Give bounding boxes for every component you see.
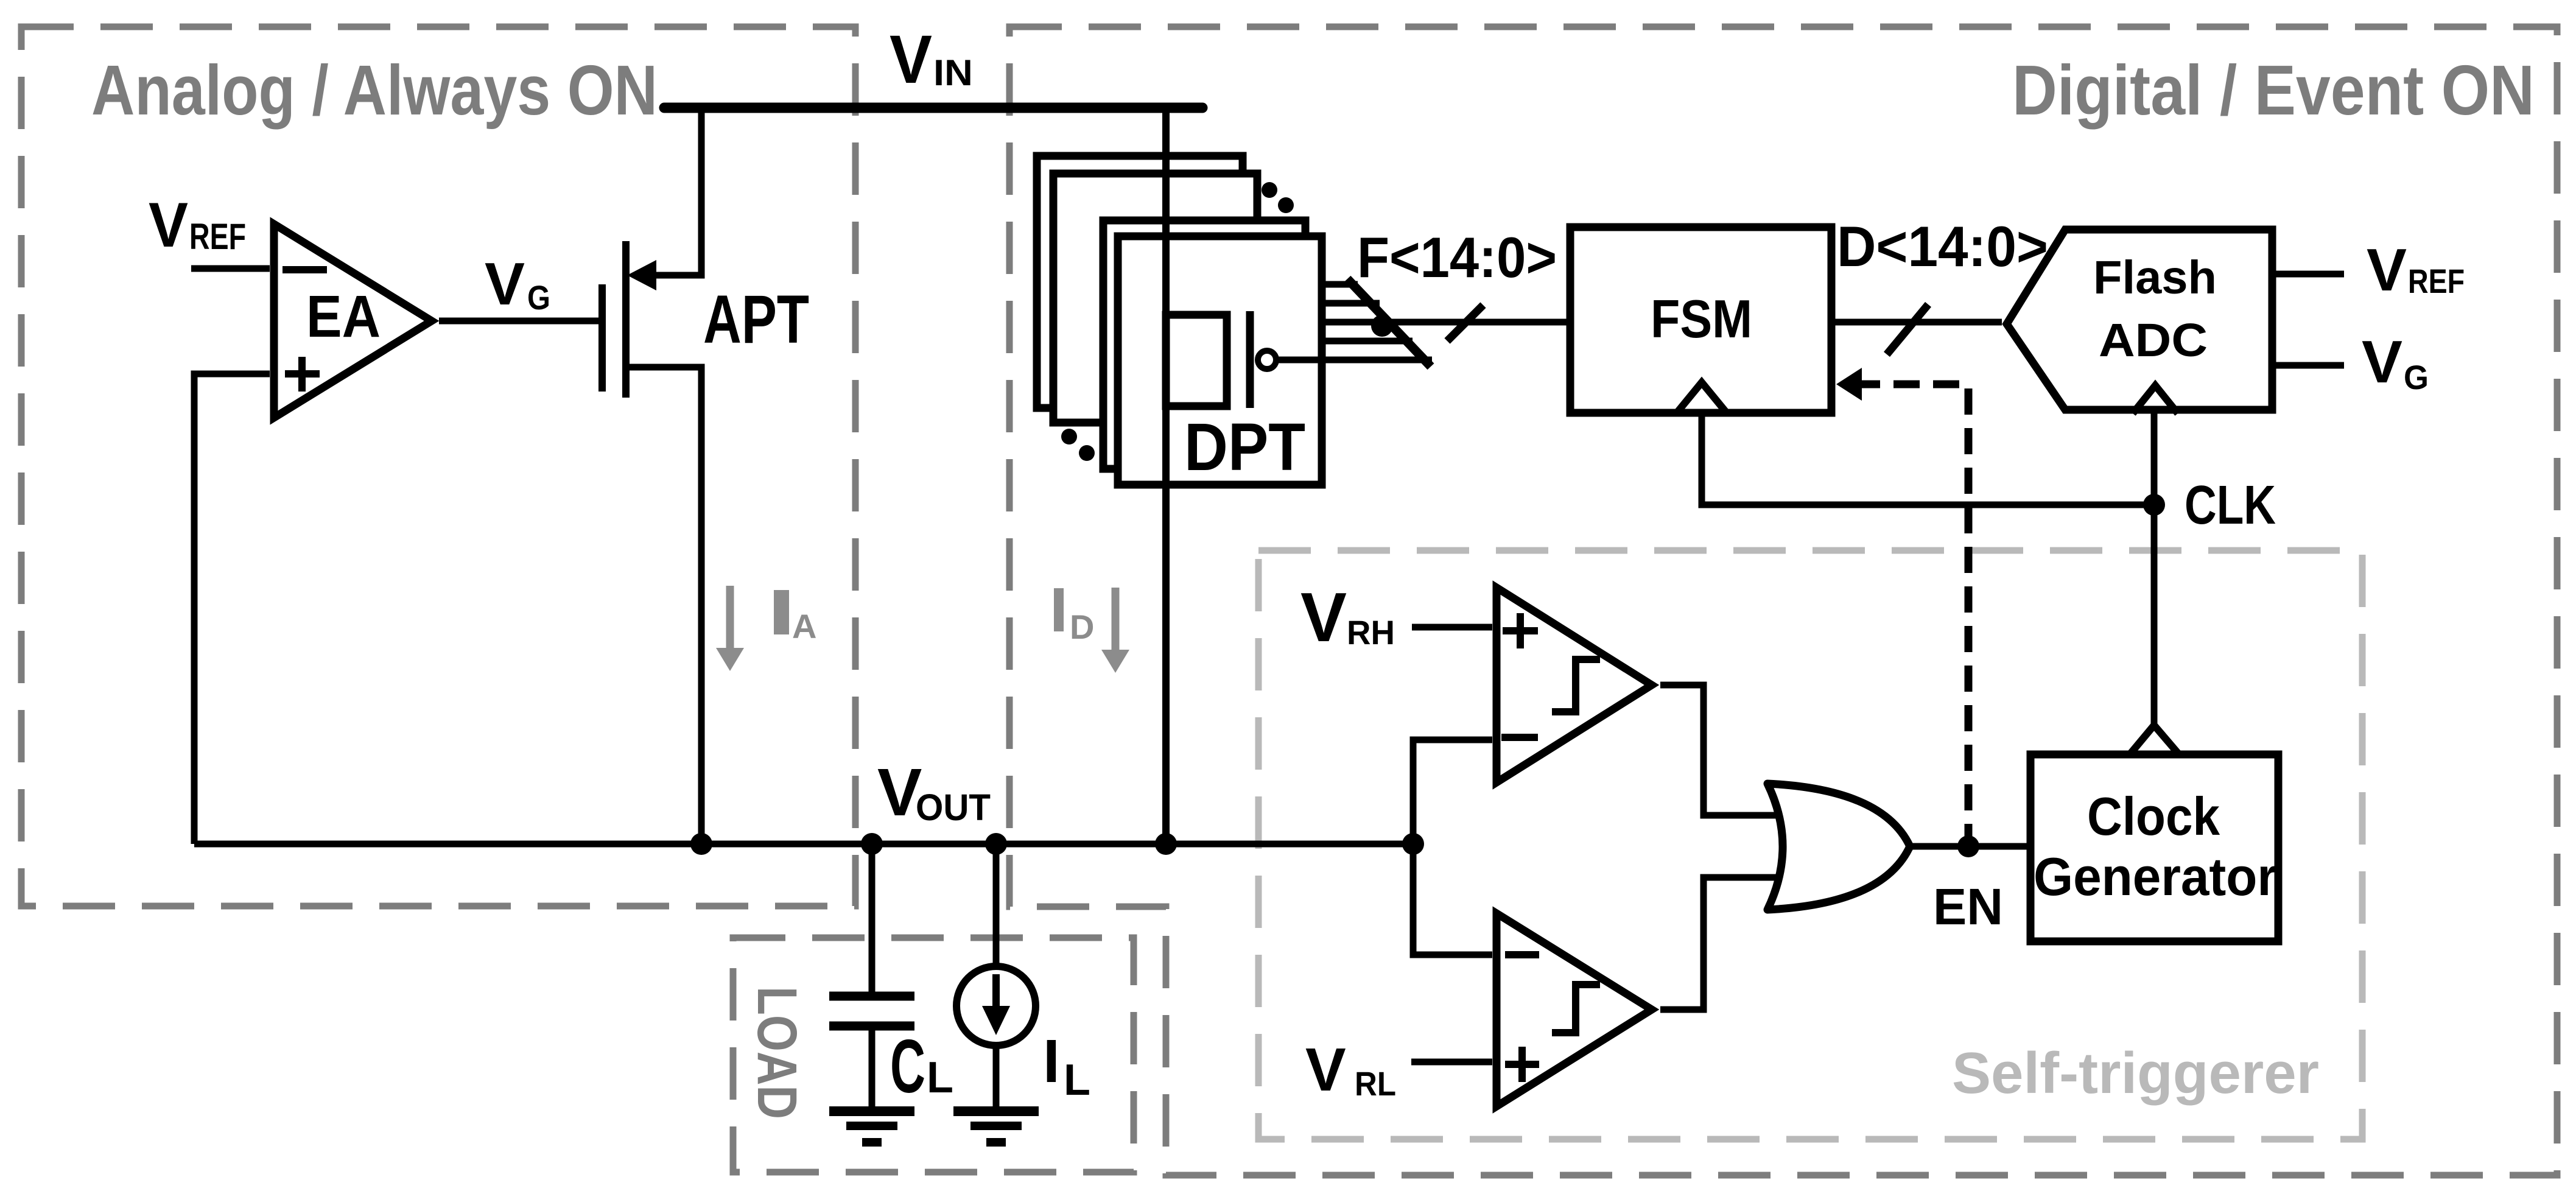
label VREF right — [2367, 236, 2465, 303]
svg-text:V: V — [1305, 1036, 1346, 1104]
svg-text:A: A — [792, 607, 816, 645]
label F<14:0> — [1357, 225, 1557, 289]
svg-text:Self-triggerer: Self-triggerer — [1952, 1041, 2319, 1106]
svg-text:DPT: DPT — [1184, 410, 1305, 485]
svg-text:D<14:0>: D<14:0> — [1837, 214, 2048, 278]
wire APT drain to VOUT — [626, 367, 701, 844]
label APT — [703, 281, 809, 357]
junction VOUT at APT drain — [690, 833, 712, 855]
digital region border — [1009, 27, 2557, 1175]
wire ADC VREF stub — [2276, 271, 2344, 278]
wire D bus FSM to Flash ADC — [1831, 319, 2002, 326]
capacitor CL — [829, 844, 914, 1108]
junction VOUT at CL — [861, 833, 883, 855]
svg-text:L: L — [1064, 1056, 1090, 1105]
wire VIN through DPT to VOUT — [1162, 108, 1170, 844]
block FSM — [1570, 227, 1831, 413]
svg-text:APT: APT — [703, 281, 809, 357]
bus slash D — [1887, 304, 1928, 354]
current arrow IA — [716, 586, 816, 671]
wire VOUT horizontal rail — [194, 841, 1413, 848]
label D<14:0> — [1837, 214, 2048, 278]
digital region label — [2012, 51, 2535, 130]
dashed wire EN to FSM — [1836, 368, 1968, 846]
label DPT — [1184, 410, 1305, 485]
ground below IL — [953, 1111, 1039, 1142]
label CL — [890, 1025, 953, 1109]
self-triggerer region border — [1258, 550, 2362, 1139]
junction EN — [1957, 835, 1979, 857]
op-amp EA — [274, 224, 432, 418]
svg-text:ADC: ADC — [2099, 314, 2208, 367]
svg-text:L: L — [927, 1053, 953, 1102]
label EN — [1933, 878, 2003, 935]
junction VOUT at IL — [985, 833, 1007, 855]
label VRL — [1305, 1036, 1396, 1104]
bus F wires from DPT — [1322, 284, 1570, 341]
wire VRL input — [1411, 1059, 1492, 1066]
svg-text:CLK: CLK — [2185, 475, 2276, 536]
wire VG: EA output to APT gate — [439, 318, 602, 325]
load region border — [733, 938, 1134, 1172]
svg-text:RH: RH — [1347, 613, 1395, 652]
svg-text:EA: EA — [306, 283, 381, 350]
label IL — [1043, 1027, 1090, 1105]
svg-text:IN: IN — [933, 52, 973, 93]
label VIN — [890, 21, 973, 97]
svg-text:V: V — [890, 21, 932, 97]
VIN supply rail — [664, 103, 1202, 113]
label VOUT — [877, 755, 991, 830]
wire VIN to APT source — [638, 108, 701, 275]
transistor APT (PMOS) — [602, 241, 656, 398]
svg-text:OUT: OUT — [916, 787, 991, 828]
svg-text:C: C — [890, 1025, 925, 1109]
svg-text:REF: REF — [189, 216, 246, 257]
wire top comparator output to OR — [1660, 685, 1784, 815]
svg-text:I: I — [1043, 1027, 1060, 1095]
wire feedback VOUT to EA plus input — [194, 374, 270, 844]
analog region label — [91, 51, 658, 130]
wire VRH input — [1412, 624, 1492, 631]
bus merge diagonal — [1347, 279, 1431, 367]
svg-text:RL: RL — [1355, 1064, 1396, 1103]
svg-text:Digital / Event ON: Digital / Event ON — [2012, 51, 2535, 130]
svg-text:V: V — [2367, 236, 2407, 303]
svg-text:V: V — [485, 250, 525, 317]
svg-text:FSM: FSM — [1651, 289, 1752, 349]
svg-text:Generator: Generator — [2034, 846, 2277, 907]
junction VOUT at DPT — [1155, 833, 1177, 855]
svg-text:V: V — [1300, 579, 1347, 656]
DPT stacked cell boxes — [1037, 156, 1322, 485]
label VG right — [2362, 328, 2429, 396]
bus slash F — [1447, 305, 1483, 341]
svg-text:D: D — [1070, 608, 1094, 646]
DPT ellipsis dots lower left — [1061, 429, 1095, 461]
comparator top (Schmitt) — [1497, 588, 1652, 782]
svg-text:F<14:0>: F<14:0> — [1357, 225, 1557, 289]
junction VOUT at comparator tap — [1402, 833, 1424, 855]
wire CLK net — [1702, 413, 2154, 725]
analog region border — [21, 27, 855, 906]
svg-text:LOAD: LOAD — [746, 986, 808, 1119]
wire VREF to EA minus input — [191, 265, 270, 272]
wire EN: OR output to Clock Generator — [1911, 843, 2030, 850]
load region label — [746, 986, 808, 1119]
label VG — [485, 250, 550, 317]
comparator bottom (Schmitt) — [1497, 913, 1652, 1106]
svg-text:Flash: Flash — [2093, 251, 2217, 304]
wire VOUT to comparator inputs — [1413, 740, 1492, 955]
wire ADC VG stub — [2276, 362, 2344, 369]
svg-text:G: G — [2404, 358, 2429, 396]
wire bottom comparator output to OR — [1660, 877, 1784, 1010]
block Clock Generator — [2030, 725, 2278, 941]
ground below CL — [829, 1111, 914, 1142]
transistor DPT gate with bubble — [1250, 311, 1432, 408]
label VREF left — [149, 190, 246, 261]
svg-text:G: G — [527, 278, 550, 317]
svg-text:V: V — [2362, 328, 2402, 395]
svg-text:EN: EN — [1933, 878, 2003, 935]
OR gate — [1767, 784, 1910, 910]
current source IL — [956, 844, 1036, 1108]
junction CLK — [2143, 494, 2165, 516]
svg-text:Clock: Clock — [2087, 786, 2220, 846]
svg-text:REF: REF — [2408, 262, 2465, 300]
svg-text:V: V — [149, 190, 188, 261]
DPT ellipsis dots upper right — [1262, 182, 1294, 213]
label VRH — [1300, 579, 1395, 656]
label CLK — [2185, 475, 2276, 536]
svg-text:Analog / Always ON: Analog / Always ON — [91, 51, 658, 130]
current arrow ID — [1054, 588, 1129, 673]
self-triggerer label — [1952, 1041, 2319, 1106]
block Flash ADC — [2007, 230, 2272, 413]
transistor DPT channel jog — [1166, 315, 1227, 406]
